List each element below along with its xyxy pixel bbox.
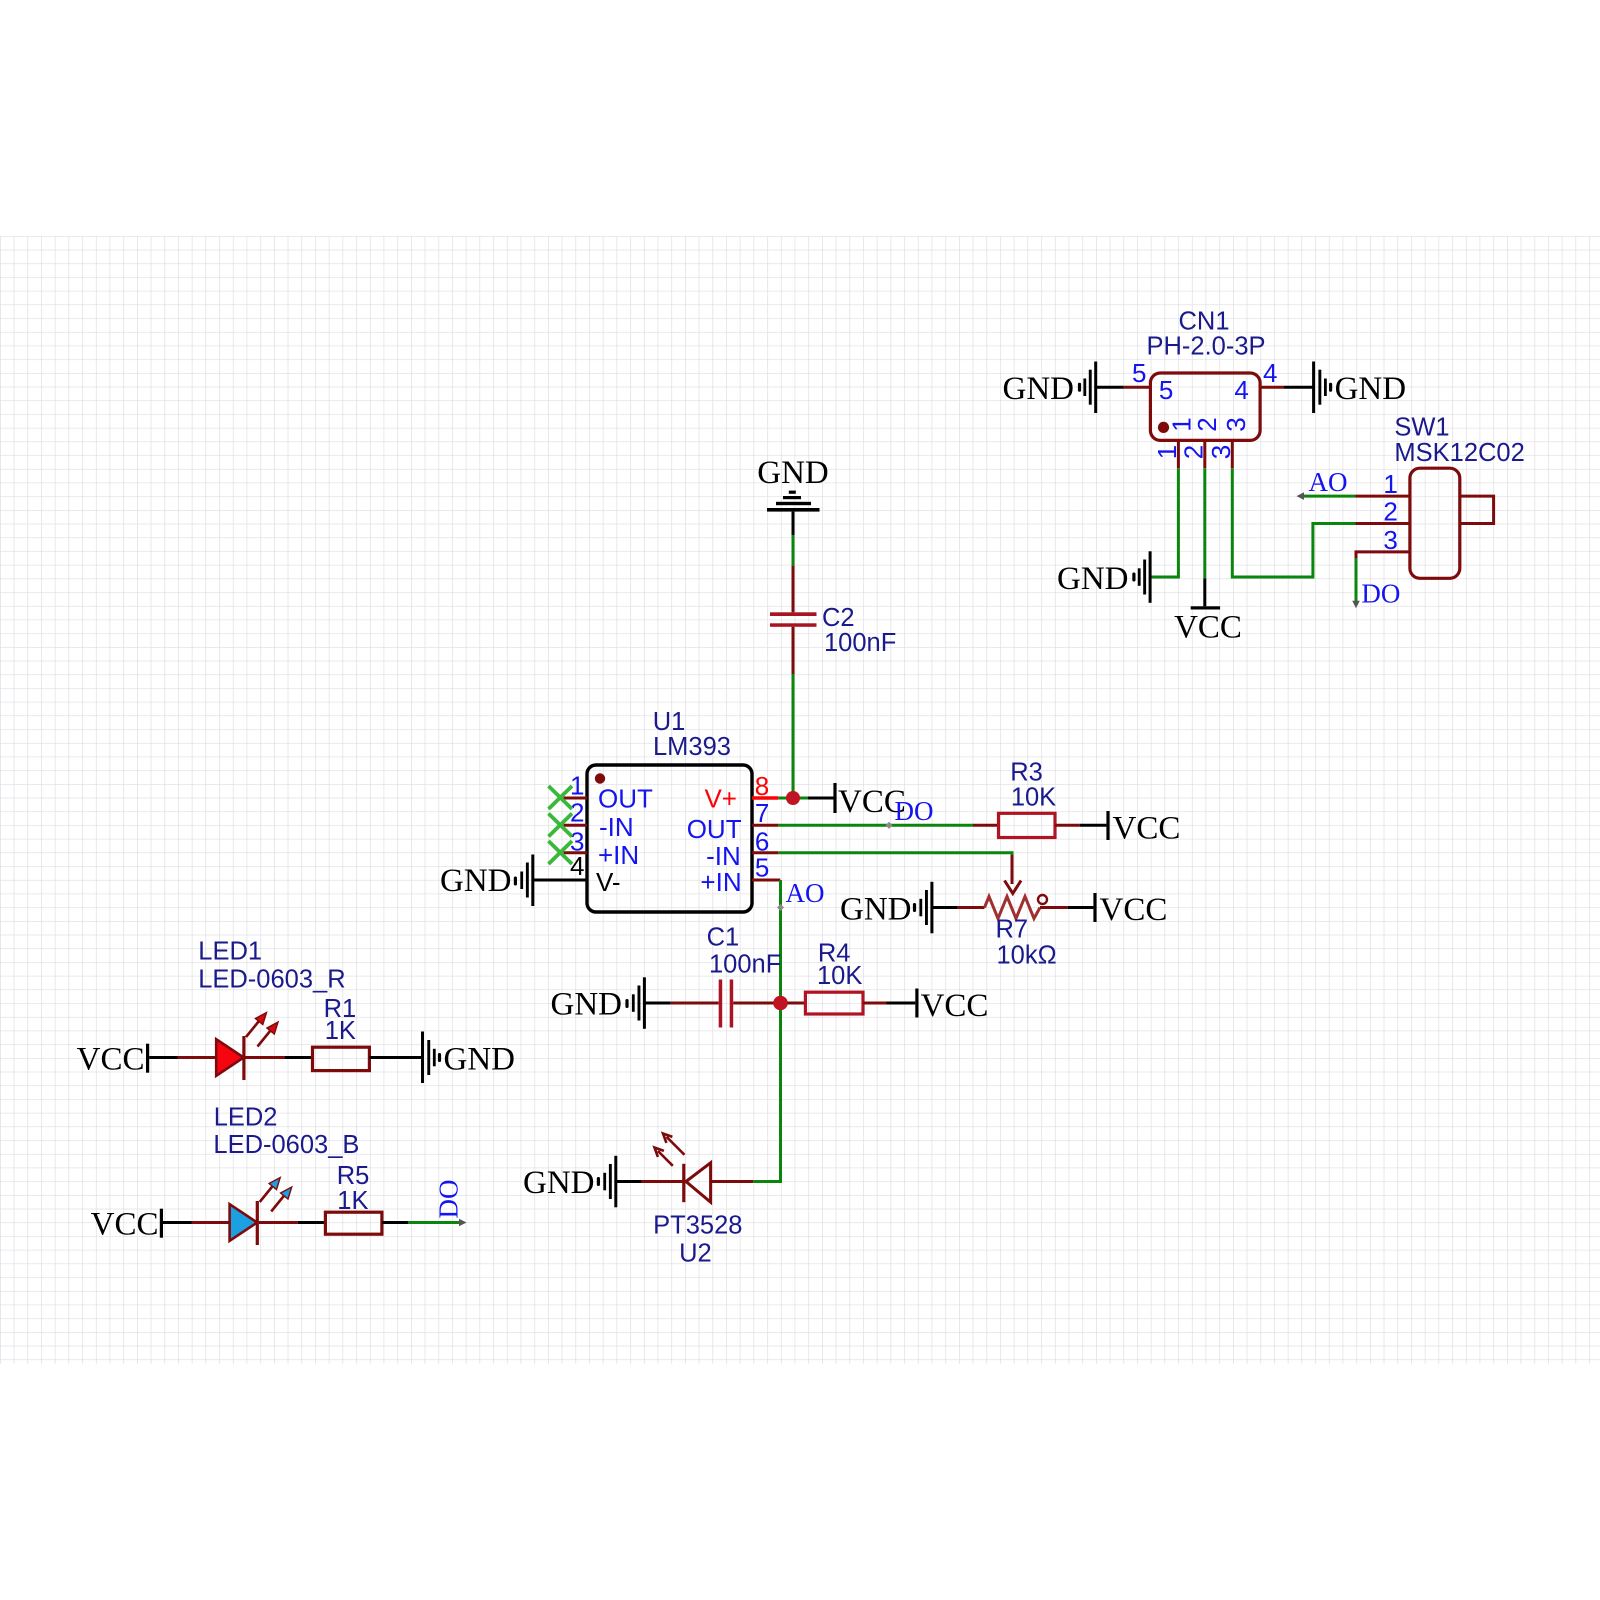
wire U1 pin4 to GND: [532, 879, 588, 882]
svg-text:PH-2.0-3P: PH-2.0-3P: [1146, 333, 1265, 361]
pin 2: [1356, 522, 1410, 525]
svg-text:AO: AO: [1309, 467, 1348, 497]
ground GND (U2): [523, 1156, 617, 1208]
wire node to VCC: [808, 797, 835, 800]
pin 5: [752, 879, 780, 882]
capacitor C1: [671, 924, 782, 1028]
wire AO to SW1 pin1: [1301, 495, 1355, 498]
potentiometer R7: [957, 855, 1068, 970]
svg-text:LED1: LED1: [198, 938, 262, 966]
svg-text:4: 4: [1263, 358, 1277, 388]
wire CN1 pin2 to VCC: [1203, 468, 1206, 606]
svg-text:+IN: +IN: [700, 867, 741, 897]
svg-text:V+: V+: [704, 784, 737, 814]
power VCC (LED1): [77, 1042, 150, 1078]
power VCC (R4): [915, 988, 988, 1024]
svg-text:LM393: LM393: [653, 733, 731, 761]
wire GND to U2: [616, 1180, 642, 1183]
wire CN1 pin5 to GND: [1097, 386, 1124, 389]
svg-text:VCC: VCC: [1174, 610, 1242, 646]
svg-text:5: 5: [1159, 375, 1173, 405]
ground GND top (C2): [757, 455, 829, 512]
node V+ junction: [786, 791, 800, 805]
wire GND to C1: [645, 1002, 671, 1005]
wire CN1 pin3 to SW1 pin2: [1232, 468, 1355, 577]
ground GND (R1): [421, 1032, 515, 1084]
pin 3: [1356, 552, 1410, 558]
pin 3 stub: [1231, 440, 1234, 468]
wire R4 to VCC: [887, 1002, 916, 1005]
ground GND (CN1 pin1): [1057, 551, 1152, 603]
wire R3 to VCC: [1080, 824, 1107, 827]
wire R5 to DO net: [382, 1221, 408, 1224]
wire VCC to LED2: [163, 1221, 192, 1224]
svg-text:7: 7: [755, 798, 769, 828]
svg-text:2: 2: [1178, 445, 1208, 459]
photodiode U2 PT3528: [642, 1134, 754, 1268]
wire CN1 pin1 to GND: [1152, 468, 1179, 577]
svg-text:OUT: OUT: [598, 784, 653, 814]
svg-text:10kΩ: 10kΩ: [997, 942, 1057, 970]
svg-text:3: 3: [1221, 417, 1251, 431]
svg-text:5: 5: [755, 852, 769, 882]
pin 6: [752, 851, 778, 854]
wire pin5 AO net down: [779, 880, 782, 996]
wire C2 to V+ node: [792, 674, 795, 794]
svg-text:U2: U2: [679, 1240, 712, 1268]
pin 8: [752, 796, 778, 799]
no-connect X pin 2: [549, 814, 573, 837]
LED LED1: [178, 938, 346, 1081]
svg-text:GND: GND: [444, 1042, 516, 1078]
no-connect X pin 1: [549, 786, 573, 809]
pin 4 stub: [1260, 386, 1284, 389]
svg-text:R7: R7: [995, 916, 1028, 944]
svg-text:3: 3: [1206, 445, 1236, 459]
net label DO (pin7): [885, 796, 933, 829]
wire LED1 to R1: [285, 1056, 313, 1059]
pin 5 stub: [1124, 386, 1151, 389]
svg-text:DO: DO: [895, 796, 934, 826]
svg-text:2: 2: [570, 798, 584, 828]
net label DO (R5): [434, 1180, 467, 1227]
svg-text:1: 1: [1383, 469, 1397, 499]
wire SW1 pin3 DO: [1355, 558, 1358, 604]
power VCC (R3): [1106, 811, 1180, 847]
ground GND (C1): [551, 977, 646, 1029]
ground GND (U1 pin4): [440, 855, 534, 907]
svg-text:PT3528: PT3528: [653, 1212, 742, 1240]
svg-text:2: 2: [1192, 417, 1222, 431]
switch SW1 MSK12C02: [1356, 414, 1525, 579]
svg-text:GND: GND: [1003, 371, 1075, 407]
svg-text:10K: 10K: [817, 962, 862, 990]
svg-text:SW1: SW1: [1394, 414, 1449, 442]
ground GND (CN1 pin5): [1003, 362, 1098, 414]
svg-text:LED-0603_R: LED-0603_R: [198, 966, 345, 994]
svg-text:GND: GND: [757, 455, 829, 491]
LED LED2: [192, 1104, 360, 1246]
wire pin8 to node: [778, 797, 808, 800]
svg-text:LED-0603_B: LED-0603_B: [213, 1131, 359, 1159]
svg-text:VCC: VCC: [1100, 892, 1168, 928]
power VCC (pin8): [833, 783, 905, 820]
svg-text:GND: GND: [1057, 561, 1129, 597]
pin 2: [564, 824, 588, 827]
svg-text:AO: AO: [786, 878, 825, 908]
svg-text:V-: V-: [596, 867, 621, 897]
pin 1: [564, 797, 588, 800]
wire GND to R7: [932, 906, 957, 909]
wire CN1 pin4 to GND: [1284, 386, 1314, 389]
svg-text:5: 5: [1132, 358, 1146, 388]
svg-text:R3: R3: [1010, 759, 1043, 787]
svg-text:U1: U1: [653, 708, 686, 736]
wire pin6 to R7 wiper: [778, 853, 1012, 857]
svg-text:100nF: 100nF: [824, 629, 896, 657]
svg-text:+IN: +IN: [598, 840, 639, 870]
wire VCC to LED1: [149, 1056, 177, 1059]
svg-text:DO: DO: [434, 1180, 464, 1219]
net label DO (SW1): [1352, 579, 1400, 609]
svg-text:R5: R5: [337, 1162, 370, 1190]
svg-text:OUT: OUT: [687, 814, 742, 844]
wire R7 to VCC: [1068, 906, 1094, 909]
svg-text:VCC: VCC: [77, 1042, 145, 1078]
resistor R3: [973, 759, 1080, 838]
wire R1 to GND: [369, 1056, 421, 1059]
svg-text:GND: GND: [440, 863, 512, 899]
svg-text:MSK12C02: MSK12C02: [1394, 439, 1524, 467]
svg-text:CN1: CN1: [1178, 308, 1229, 336]
wire LED2 to R5: [298, 1221, 326, 1224]
svg-text:2: 2: [1383, 497, 1397, 527]
svg-text:VCC: VCC: [1113, 811, 1181, 847]
net label AO (SW1): [1297, 467, 1348, 500]
pin 7: [752, 824, 778, 827]
svg-text:100nF: 100nF: [709, 951, 781, 979]
svg-text:4: 4: [1234, 375, 1248, 405]
svg-text:LED2: LED2: [214, 1104, 278, 1132]
resistor R5: [325, 1162, 382, 1234]
capacitor C2: [770, 604, 896, 674]
pin 1: [1356, 495, 1410, 498]
svg-text:8: 8: [755, 771, 769, 801]
power VCC (CN1 pin2): [1174, 606, 1242, 645]
connector CN1 PH-2.0-3P: [1124, 308, 1284, 469]
svg-text:GND: GND: [1335, 371, 1407, 407]
svg-text:C2: C2: [822, 604, 855, 632]
pin 1 stub: [1177, 440, 1180, 468]
svg-text:3: 3: [1383, 525, 1397, 555]
wire AO node down to U2: [753, 1010, 780, 1182]
power VCC (R7): [1093, 892, 1167, 928]
pin 2 stub: [1203, 440, 1206, 468]
svg-text:1K: 1K: [325, 1017, 356, 1045]
node AO junction (C1/R4): [773, 996, 788, 1011]
pin 3: [564, 851, 588, 854]
net label AO anchor: [777, 904, 784, 911]
wire pin7 (DO net) to R3: [778, 824, 973, 827]
svg-text:-IN: -IN: [599, 812, 634, 842]
svg-text:GND: GND: [523, 1165, 595, 1201]
resistor R4: [788, 940, 887, 1015]
ground GND (CN1 pin4): [1312, 362, 1406, 414]
no-connect X pin 3: [549, 841, 573, 864]
svg-text:DO: DO: [1361, 579, 1400, 609]
svg-text:C1: C1: [707, 924, 740, 952]
svg-text:10K: 10K: [1011, 784, 1056, 812]
svg-text:GND: GND: [551, 987, 623, 1023]
svg-text:VCC: VCC: [921, 988, 989, 1024]
power VCC (LED2): [91, 1207, 163, 1243]
op-amp U1 LM393: [564, 708, 781, 912]
svg-text:1: 1: [570, 771, 584, 801]
wire GND to C2: [792, 512, 795, 613]
svg-text:GND: GND: [840, 892, 912, 928]
ground GND (R7): [840, 882, 933, 934]
svg-text:VCC: VCC: [91, 1207, 159, 1243]
svg-text:4: 4: [570, 851, 584, 881]
resistor R1: [313, 995, 370, 1071]
